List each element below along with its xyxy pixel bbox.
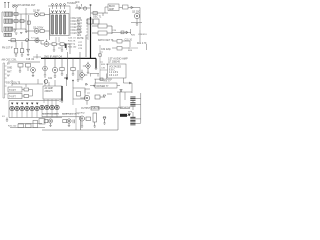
svg-text:R16 150: R16 150 [68, 47, 77, 49]
svg-text:0.6 1.1 8: 0.6 1.1 8 [109, 75, 119, 77]
svg-text:VCC: VCC [77, 26, 82, 28]
svg-text:GND: GND [7, 68, 12, 70]
svg-text:C31 10: C31 10 [125, 40, 133, 42]
svg-text:C51 R52: C51 R52 [76, 112, 85, 114]
svg-text:SPK: SPK [128, 112, 133, 114]
svg-text:C41: C41 [48, 78, 53, 80]
svg-text:AGC: AGC [77, 22, 82, 25]
svg-text:1ST AUDIO AMP: 1ST AUDIO AMP [108, 57, 128, 61]
svg-text:2SB175: 2SB175 [45, 91, 54, 93]
svg-text:2ND IF AMP Q4: 2ND IF AMP Q4 [44, 55, 62, 58]
svg-text:DET: DET [77, 29, 82, 31]
svg-text:OUTPUT 2SB178: OUTPUT 2SB178 [81, 108, 100, 110]
svg-text:EARPHONE: EARPHONE [118, 106, 131, 109]
svg-text:IF IN: IF IN [77, 20, 82, 22]
svg-text:GND: GND [77, 32, 82, 34]
svg-text:AMP: AMP [109, 8, 114, 11]
svg-text:R31 47: R31 47 [104, 81, 112, 83]
svg-text:Q2 CONV: Q2 CONV [33, 27, 44, 29]
svg-text:AM OSC COIL: AM OSC COIL [2, 59, 18, 62]
svg-text:C25 5p: C25 5p [68, 44, 76, 46]
svg-text:R15 2K: R15 2K [68, 41, 76, 43]
svg-text:C32 220p: C32 220p [101, 49, 112, 51]
svg-text:T3 IFT: T3 IFT [9, 90, 16, 92]
svg-text:C28 R19: C28 R19 [138, 34, 147, 36]
svg-text:MUTE: MUTE [77, 38, 84, 40]
svg-text:T4 IFT: T4 IFT [9, 96, 16, 98]
svg-text:C18 .02: C18 .02 [26, 59, 35, 61]
svg-text:AF AMP: AF AMP [45, 87, 54, 90]
svg-text:1.2 1.8 9: 1.2 1.8 9 [109, 72, 119, 74]
svg-text:C47 R39 2SB77: C47 R39 2SB77 [43, 114, 60, 116]
svg-text:DRIVER T7: DRIVER T7 [97, 86, 110, 88]
svg-text:BUFF: BUFF [109, 6, 116, 8]
svg-text:VOLTAGES: VOLTAGES [109, 66, 122, 69]
svg-text:Q5 2SC: Q5 2SC [132, 12, 141, 14]
svg-text:TUNING: TUNING [67, 3, 76, 5]
svg-text:R22 4.7K: R22 4.7K [137, 43, 147, 45]
svg-text:C24 .01: C24 .01 [68, 38, 76, 40]
svg-text:E B C: E B C [109, 69, 115, 71]
svg-text:RATIO DET T6: RATIO DET T6 [98, 39, 114, 42]
svg-text:R41 220: R41 220 [8, 126, 17, 128]
svg-text:Q1 RF: Q1 RF [33, 11, 40, 13]
svg-text:FM 1ST IF: FM 1ST IF [2, 47, 13, 49]
svg-text:ANT: ANT [7, 71, 12, 74]
svg-text:OSC T1: OSC T1 [93, 16, 102, 18]
svg-text:AF1: AF1 [77, 34, 82, 37]
svg-text:Q7 2SB345: Q7 2SB345 [108, 61, 121, 63]
svg-text:FM ANT AM BAR ANT: FM ANT AM BAR ANT [13, 4, 36, 7]
